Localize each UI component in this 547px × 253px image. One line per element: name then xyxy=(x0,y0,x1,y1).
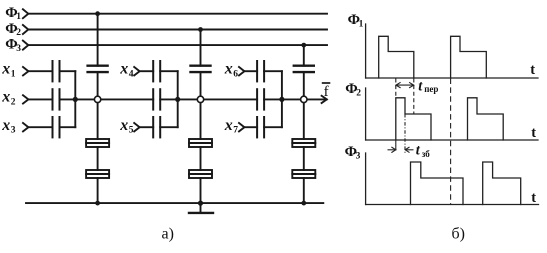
svg-text:7: 7 xyxy=(233,126,238,136)
svg-text:зб: зб xyxy=(422,149,431,159)
svg-text:x: x xyxy=(1,61,10,78)
svg-text:1: 1 xyxy=(11,69,16,79)
svg-text:пер: пер xyxy=(424,84,438,94)
svg-text:t: t xyxy=(531,125,536,141)
svg-text:x: x xyxy=(224,61,233,78)
svg-text:f: f xyxy=(324,84,329,100)
svg-text:t: t xyxy=(530,62,535,78)
svg-text:3: 3 xyxy=(16,44,21,54)
svg-text:1: 1 xyxy=(359,20,364,30)
svg-text:t: t xyxy=(531,190,536,206)
svg-text:б): б) xyxy=(452,226,465,243)
svg-text:а): а) xyxy=(162,226,174,243)
svg-text:x: x xyxy=(119,117,128,134)
svg-text:5: 5 xyxy=(129,126,134,136)
svg-text:x: x xyxy=(224,117,233,134)
svg-text:3: 3 xyxy=(11,126,16,136)
svg-text:6: 6 xyxy=(233,69,238,79)
svg-text:3: 3 xyxy=(356,151,361,161)
svg-text:x: x xyxy=(119,61,128,78)
svg-text:x: x xyxy=(1,117,10,134)
svg-text:4: 4 xyxy=(129,69,134,79)
svg-text:x: x xyxy=(1,89,10,106)
svg-text:2: 2 xyxy=(11,98,16,108)
svg-text:2: 2 xyxy=(356,89,361,99)
